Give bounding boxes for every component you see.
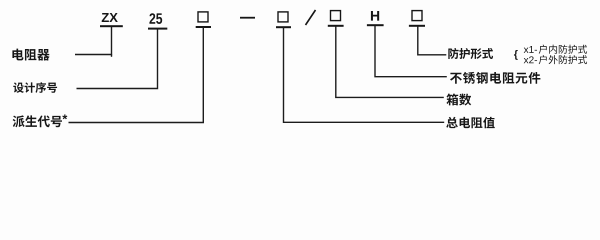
wire from box 3 down-right to 箱数 xyxy=(336,26,444,98)
asterisk after 派生代号 xyxy=(62,114,67,119)
field code "H" (stainless element) xyxy=(371,11,379,21)
underline under box 2 xyxy=(276,26,291,28)
corner overshoot tick at ZX wire elbow xyxy=(111,55,113,57)
label 总电阻值 (total resistance value) xyxy=(446,117,494,128)
field code "ZX" (product series) xyxy=(102,13,118,22)
hyphen separator xyxy=(240,17,255,19)
wire from box 4 down-right to 防护形式 xyxy=(418,26,447,55)
wire from H down-right to 不锈钢电阻元件 xyxy=(375,25,447,76)
option prefix x2- xyxy=(524,56,537,63)
option label 户外防护式 (outdoor protected) xyxy=(539,55,587,64)
placeholder box 2 (total resistance) xyxy=(278,12,288,22)
placeholder box 1 (derived code) xyxy=(198,12,208,22)
underline under box 3 xyxy=(328,25,344,27)
underline under 25 xyxy=(148,28,167,30)
underline under ZX xyxy=(100,25,123,27)
option label 户内防护式 (indoor protected) xyxy=(539,45,587,54)
label 设计序号 (design serial no.) xyxy=(13,82,57,93)
label 不锈钢电阻元件 (stainless steel resistor element) xyxy=(450,72,540,84)
label 防护形式 (protection form) xyxy=(448,48,493,59)
label 派生代号 (derived code) xyxy=(13,115,62,127)
wire from ZX down-left to 电阻器 xyxy=(75,27,112,55)
brace before protection options xyxy=(514,50,518,60)
wire from box 1 down-left to 派生代号 xyxy=(69,27,204,123)
slash separator xyxy=(306,10,316,25)
label 电阻器 (resistor) xyxy=(12,49,49,61)
field code "25" (design serial) xyxy=(149,13,162,24)
placeholder box 4 (protection form) xyxy=(412,11,422,21)
placeholder box 3 (box count) xyxy=(331,11,341,21)
underline under H xyxy=(367,24,384,26)
label 箱数 (number of boxes) xyxy=(446,94,471,106)
wire from 25 down-left to 设计序号 xyxy=(77,29,158,89)
underline under box 4 xyxy=(409,25,425,27)
underline under box 1 xyxy=(196,26,211,28)
option prefix x1- xyxy=(524,46,537,53)
wire from box 2 down-right to 总电阻值 xyxy=(284,27,445,122)
